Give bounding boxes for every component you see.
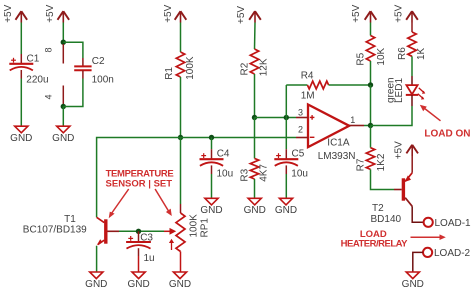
svg-text:GND: GND (52, 133, 74, 144)
power +5V supply arrow for R6 (394, 4, 418, 22)
wire R5 to R4 node (370, 61, 372, 85)
svg-text:+5V: +5V (45, 4, 56, 22)
svg-text:GND: GND (275, 205, 297, 216)
wire junction down to RP1 (180, 138, 182, 205)
svg-text:BC107/BD139: BC107/BD139 (23, 224, 87, 235)
wire junction up to R4 (285, 85, 287, 118)
ground below C5 (275, 198, 297, 216)
pad LOAD-2 (423, 248, 471, 259)
ground below C2 (52, 126, 74, 144)
ground below C4 (200, 198, 222, 216)
wire +5V to R2 (254, 23, 257, 50)
svg-text:GND: GND (402, 279, 424, 290)
wire T2 collector to LOAD-1 pad (412, 206, 423, 222)
svg-text:10K: 10K (376, 47, 387, 65)
resistor R5 (356, 36, 387, 66)
capacitor C5 (274, 149, 308, 180)
power +5V supply arrow for R5 (351, 4, 376, 22)
node C5/R4 junction (284, 115, 289, 120)
wire +5V to R6 (411, 23, 413, 33)
resistor R4 feedback (301, 71, 329, 102)
svg-text:100K: 100K (185, 56, 196, 80)
svg-text:C2: C2 (92, 56, 105, 67)
wire LED cathode to output node (371, 106, 413, 126)
transistor T2 BD140 (371, 156, 413, 225)
svg-text:4K7: 4K7 (258, 164, 269, 182)
svg-text:R3: R3 (240, 168, 251, 181)
power +5V supply arrow for C1 (3, 4, 27, 22)
svg-text:GND: GND (169, 279, 191, 290)
wire +5V to C1 (20, 23, 22, 55)
svg-text:3: 3 (298, 107, 303, 117)
wire +5V to R5 (370, 23, 372, 36)
annotation arrow to LED (420, 105, 441, 121)
wire RP1 to GND (180, 252, 182, 273)
svg-text:LM393N: LM393N (318, 151, 356, 162)
svg-text:LOAD-2: LOAD-2 (434, 248, 471, 259)
svg-text:10u: 10u (291, 168, 308, 179)
wire inverting bus to op-amp pin 2 (97, 138, 296, 218)
IC1 power pin 4 (44, 86, 64, 106)
wire divider down to R3 crossing inverting bus (254, 118, 256, 159)
ground below T1 (85, 272, 107, 290)
resistor R7 (356, 148, 387, 172)
wire C1 to GND (20, 79, 22, 127)
pad LOAD-1 (424, 218, 471, 229)
node IC1 pin8 junction (61, 40, 66, 45)
node C4 junction (209, 135, 214, 140)
label LOAD HEATER/RELAY (341, 229, 408, 250)
ground below C1 (10, 126, 32, 144)
op-amp IC1A LM393N (308, 105, 356, 162)
resistor R1 (164, 52, 196, 80)
op-amp pin 1 output (349, 115, 364, 125)
node T1 base / C3 junction (136, 229, 141, 234)
svg-text:+5V: +5V (394, 4, 405, 22)
svg-text:C1: C1 (27, 53, 40, 64)
svg-text:1M: 1M (301, 91, 315, 102)
wire junction down to C4 (211, 138, 213, 150)
svg-text:R1: R1 (164, 67, 175, 80)
wire R3 to GND (254, 179, 256, 198)
annotation arrow to T1 (109, 189, 129, 218)
wire R4 right lead to R5 node (329, 84, 371, 86)
power +5V supply arrow for IC1 pin 8 / C2 (45, 4, 69, 22)
wire +5V to R1 (180, 23, 182, 53)
svg-text:2: 2 (298, 124, 303, 134)
capacitor C1 (9, 53, 48, 85)
power +5V supply arrow for R1 (163, 4, 186, 22)
svg-text:C3: C3 (140, 232, 153, 243)
svg-text:8: 8 (44, 47, 54, 52)
node output junction (368, 123, 373, 128)
svg-text:R6: R6 (397, 47, 408, 60)
svg-text:+5V: +5V (3, 4, 14, 22)
svg-text:1K: 1K (416, 47, 427, 60)
wire junction down to C5 crossing inverting bus (285, 118, 287, 150)
wire R2 to non-inverting node (254, 74, 256, 118)
svg-text:GND: GND (10, 133, 32, 144)
wire T1 base to C3 node (119, 230, 164, 232)
ground below R3 (244, 198, 266, 216)
LED LED1 green (386, 76, 426, 106)
svg-text:R4: R4 (301, 71, 314, 82)
svg-text:1u: 1u (144, 253, 155, 264)
svg-text:+5V: +5V (393, 141, 404, 159)
svg-text:C5: C5 (292, 149, 305, 160)
potentiometer RP1 (164, 204, 211, 252)
transistor T1 BC107/BD139 (23, 214, 119, 246)
resistor R6 (397, 32, 427, 60)
wire C5 to GND (285, 174, 287, 198)
label LOAD ON (424, 128, 470, 139)
ground below LOAD-2 (402, 272, 424, 290)
node R1/RP1 junction (178, 135, 183, 140)
svg-text:+5V: +5V (163, 4, 174, 22)
power +5V supply arrow for T2 emitter (393, 141, 418, 159)
wire R1 to inverting bus (180, 77, 182, 138)
node R2/R3 divider junction (252, 115, 257, 120)
svg-text:RP1: RP1 (200, 218, 211, 238)
wire T1 emitter to GND (96, 246, 98, 272)
wire +5V to IC1 pin 8 node (62, 23, 64, 43)
wire C2 bottom to pin4 node (63, 79, 83, 107)
power +5V supply arrow for R2 (236, 6, 261, 24)
svg-text:GND: GND (200, 205, 222, 216)
svg-text:IC1A: IC1A (327, 138, 350, 149)
svg-text:GND: GND (127, 279, 149, 290)
svg-text:12K: 12K (258, 58, 269, 76)
resistor R2 (240, 49, 270, 76)
annotation arrow to RP1 (155, 189, 172, 216)
wire output node to R7 (370, 126, 372, 148)
resistor R3 (240, 158, 270, 181)
wire R6 to LED (411, 56, 413, 76)
svg-text:1K2: 1K2 (376, 153, 387, 171)
IC1 power pin 8 (44, 44, 64, 64)
svg-text:R5: R5 (356, 52, 367, 65)
svg-text:1: 1 (350, 115, 355, 125)
annotation arrow load direction (411, 234, 446, 240)
svg-text:100K: 100K (188, 214, 199, 238)
capacitor C3 (126, 231, 155, 263)
node R4/R5 junction (368, 82, 373, 87)
op-amp pin 3 non-inverting input (296, 107, 308, 117)
capacitor C2 (74, 56, 114, 86)
wire C4 to GND (211, 174, 213, 198)
wire R4 left lead (286, 84, 307, 86)
svg-text:BD140: BD140 (371, 214, 402, 225)
svg-text:220u: 220u (26, 75, 48, 86)
wire R7 to T2 base (371, 169, 395, 189)
svg-text:R7: R7 (356, 158, 367, 171)
svg-text:LOAD ON: LOAD ON (424, 128, 470, 139)
wire C3 to GND (138, 256, 140, 272)
svg-text:HEATER/RELAY: HEATER/RELAY (341, 239, 408, 250)
wire LOAD-2 pad to GND (413, 252, 423, 272)
wire output to junction (364, 125, 371, 127)
op-amp pin 2 inverting input (296, 124, 308, 137)
svg-text:LOAD-1: LOAD-1 (435, 218, 472, 229)
svg-text:10u: 10u (217, 168, 234, 179)
svg-text:GND: GND (244, 205, 266, 216)
svg-text:C4: C4 (217, 149, 230, 160)
ground below C3 (127, 272, 149, 290)
node IC1 pin4 junction (61, 104, 66, 109)
ground below RP1 (169, 272, 191, 290)
capacitor C4 (200, 149, 234, 180)
svg-text:+5V: +5V (236, 6, 247, 24)
svg-text:LED1: LED1 (394, 78, 405, 103)
svg-text:+5V: +5V (351, 4, 362, 22)
wire R4 node to output node (370, 85, 372, 126)
svg-text:SENSOR | SET: SENSOR | SET (106, 179, 173, 190)
svg-text:4: 4 (44, 94, 54, 99)
wire pin8 node to C2 top (63, 42, 83, 58)
svg-text:R2: R2 (240, 62, 251, 75)
svg-text:GND: GND (85, 279, 107, 290)
svg-text:T2: T2 (372, 203, 384, 214)
svg-text:100n: 100n (92, 75, 114, 86)
wire non-inverting bus to op-amp pin 3 (255, 117, 297, 119)
label TEMPERATURE SENSOR | SET (106, 168, 174, 189)
wire pin4 node to GND (62, 107, 64, 127)
